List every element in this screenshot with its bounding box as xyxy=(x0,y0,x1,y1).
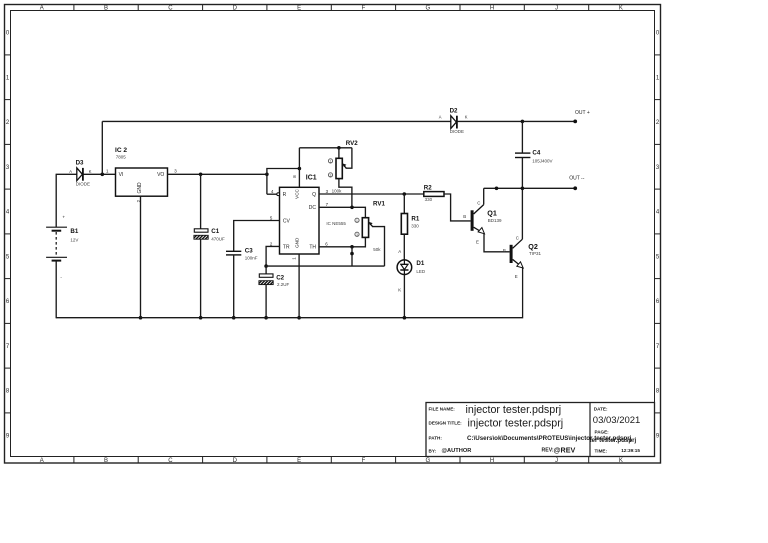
svg-text:+: + xyxy=(62,214,65,219)
svg-text:DIODE: DIODE xyxy=(450,129,464,134)
svg-text:injector tester.pdsprj: injector tester.pdsprj xyxy=(466,404,562,416)
svg-text:IC 2: IC 2 xyxy=(115,147,127,154)
junction IC2 pin2 on ground rail xyxy=(139,316,143,320)
resistor R2 330 xyxy=(424,184,444,201)
junction LED on ground rail xyxy=(403,316,407,320)
junction C4 on OUT+ line xyxy=(521,120,525,124)
svg-text:C: C xyxy=(168,458,173,464)
svg-text:CV: CV xyxy=(283,218,291,224)
svg-text:E: E xyxy=(297,6,301,12)
svg-text:K: K xyxy=(619,6,623,12)
svg-text:F: F xyxy=(362,6,366,12)
regulator IC2 7805 xyxy=(106,147,177,202)
svg-text:7805: 7805 xyxy=(116,155,127,160)
svg-text:R2: R2 xyxy=(424,184,432,191)
svg-text:K: K xyxy=(89,169,92,174)
svg-text:E: E xyxy=(297,458,301,464)
svg-text:@AUTHOR: @AUTHOR xyxy=(442,448,472,454)
svg-text:H: H xyxy=(490,458,494,464)
svg-text:OUT +: OUT + xyxy=(575,110,590,116)
battery B1 xyxy=(46,214,79,279)
svg-text:12V: 12V xyxy=(70,237,78,242)
svg-text:DESIGN TITLE:: DESIGN TITLE: xyxy=(429,421,463,426)
svg-text:12:39:15: 12:39:15 xyxy=(621,448,640,453)
capacitor C2 2.2UF xyxy=(256,274,289,287)
svg-text:C4: C4 xyxy=(532,149,540,156)
svg-text:D: D xyxy=(233,6,238,12)
wire VCC riser to 555 pin 8 xyxy=(298,148,300,188)
svg-text:C3: C3 xyxy=(245,248,253,255)
svg-text:03/03/2021: 03/03/2021 xyxy=(593,415,641,426)
capacitor C3 100nF xyxy=(226,248,258,261)
wire C2 top stub xyxy=(265,266,267,274)
pot RV2 100k xyxy=(299,140,358,207)
wire R2 to Q1 base xyxy=(444,194,471,221)
svg-text:B: B xyxy=(463,214,466,219)
svg-text:50k: 50k xyxy=(373,247,381,252)
svg-text:RV2: RV2 xyxy=(346,140,358,147)
svg-text:H: H xyxy=(490,6,494,12)
svg-text:C: C xyxy=(516,235,519,240)
timer IC1 NE555 xyxy=(270,174,347,259)
svg-text:3: 3 xyxy=(356,233,358,237)
svg-text:B: B xyxy=(104,6,108,12)
svg-text:C1: C1 xyxy=(211,228,219,235)
svg-text:G: G xyxy=(425,458,430,464)
wire Q1 emitter to Q2 base xyxy=(484,234,510,252)
svg-text:F: F xyxy=(362,458,366,464)
svg-text:100nF: 100nF xyxy=(245,256,258,261)
terminal OUT+ xyxy=(573,110,590,123)
svg-text:BY:: BY: xyxy=(429,449,437,454)
svg-text:A: A xyxy=(40,458,44,464)
svg-text:OUT --: OUT -- xyxy=(569,176,585,182)
svg-text:DATE:: DATE: xyxy=(594,407,608,412)
svg-text:B1: B1 xyxy=(70,228,78,235)
OUT- line xyxy=(484,187,575,189)
junction DC node xyxy=(350,206,354,210)
wire C4 bottom to OUT- line xyxy=(521,158,523,189)
wire C3 bottom to ground rail xyxy=(233,255,235,318)
svg-text:IC NE555: IC NE555 xyxy=(326,221,346,226)
pot RV1 50k xyxy=(355,201,386,267)
svg-text:K: K xyxy=(619,458,623,464)
svg-text:A: A xyxy=(40,6,44,12)
wire TR node to RV1 wiper drop xyxy=(266,265,384,267)
LED D1 xyxy=(397,249,426,293)
junction C3 on ground rail xyxy=(232,316,236,320)
wire C1 bottom to ground rail xyxy=(200,239,202,318)
capacitor C4 105J400V xyxy=(515,149,552,163)
svg-text:VO: VO xyxy=(157,172,164,178)
svg-text:K: K xyxy=(465,115,468,120)
wire battery- to ground rail xyxy=(55,261,57,319)
wire xyxy=(56,173,77,175)
junction node D3-IC2-OUT+ feed xyxy=(101,173,105,177)
wire LED cathode to ground rail xyxy=(403,275,405,318)
svg-text:A: A xyxy=(398,249,401,254)
junction stray dot on OUT- line xyxy=(495,187,499,191)
svg-text:470UF: 470UF xyxy=(211,237,225,242)
svg-text:C2: C2 xyxy=(276,275,284,282)
svg-text:DIODE: DIODE xyxy=(76,181,90,186)
svg-text:1: 1 xyxy=(330,159,332,163)
svg-text:105J400V: 105J400V xyxy=(532,158,552,163)
svg-text:D1: D1 xyxy=(416,260,424,267)
svg-text:B: B xyxy=(104,458,108,464)
svg-text:A: A xyxy=(439,115,442,120)
svg-text:330: 330 xyxy=(411,224,419,229)
ground rail xyxy=(56,268,522,318)
svg-text:TR: TR xyxy=(283,245,290,251)
svg-text:PATH:: PATH: xyxy=(429,435,443,440)
svg-text:E: E xyxy=(515,274,518,279)
svg-text:VI: VI xyxy=(119,172,124,178)
svg-text:Q1: Q1 xyxy=(487,209,497,218)
svg-text:TIME:: TIME: xyxy=(595,449,608,454)
transistor Q2 TIP31 xyxy=(503,235,542,279)
wire TH tie down to TR node line xyxy=(351,247,353,266)
svg-text:VCC: VCC xyxy=(295,188,300,198)
svg-text:DC: DC xyxy=(309,205,317,211)
svg-text:G: G xyxy=(425,6,430,12)
title block xyxy=(426,403,655,457)
svg-text:TIP31: TIP31 xyxy=(529,251,542,256)
wire R1 to LED anode xyxy=(403,234,405,260)
svg-text:BD139: BD139 xyxy=(488,218,502,223)
svg-text:LED: LED xyxy=(416,269,426,274)
diode D3 xyxy=(69,160,92,187)
wire 555 Q pin3 to R2 xyxy=(319,193,424,195)
svg-text:E: E xyxy=(476,240,479,245)
wire battery+ to D3 anode xyxy=(55,174,57,227)
wire C4 top stub xyxy=(521,121,523,153)
svg-text:R1: R1 xyxy=(411,216,419,223)
svg-text:2.2UF: 2.2UF xyxy=(277,282,290,287)
wire IC2 pin2 to ground rail xyxy=(140,196,142,318)
svg-text:J: J xyxy=(555,458,558,464)
terminal OUT- xyxy=(569,176,585,191)
wire IC2 VO to 555 supply node xyxy=(168,173,267,175)
wire C1 top xyxy=(200,174,202,229)
wire Q2 collector riser xyxy=(521,188,523,239)
diode D2 xyxy=(439,107,468,134)
svg-text:330: 330 xyxy=(425,197,433,202)
wire up from junction to top rail xyxy=(101,121,103,174)
junction R1 tap on Q line xyxy=(403,192,407,196)
svg-text:R: R xyxy=(283,192,287,198)
svg-text:B: B xyxy=(503,248,506,253)
wire C2 bottom to ground rail xyxy=(265,285,267,318)
svg-text:1: 1 xyxy=(356,219,358,223)
wire top rail to D2 anode xyxy=(102,120,451,122)
junction C2 on ground rail xyxy=(264,316,268,320)
wire node up and to pin8 riser xyxy=(267,169,300,195)
wire Q1 collector to OUT- line xyxy=(483,188,485,204)
svg-text:GND: GND xyxy=(295,237,300,248)
junction VO / pin4 / pin8 node xyxy=(265,173,269,177)
svg-text:D: D xyxy=(233,458,238,464)
svg-text:Q2: Q2 xyxy=(528,242,538,251)
junction 555 GND on ground rail xyxy=(297,316,301,320)
svg-text:D3: D3 xyxy=(76,160,84,167)
svg-text:injector tester.pdsprj: injector tester.pdsprj xyxy=(468,418,564,430)
svg-text:TH: TH xyxy=(309,245,316,251)
svg-text:FILE NAME:: FILE NAME: xyxy=(429,407,456,412)
svg-text:100k: 100k xyxy=(332,189,343,194)
junction C1 tap xyxy=(199,173,203,177)
svg-text:D2: D2 xyxy=(450,107,458,114)
svg-text:PAGE:: PAGE: xyxy=(595,430,610,435)
svg-text:Q: Q xyxy=(312,192,316,198)
svg-text:C: C xyxy=(477,201,480,206)
wire 555 GND pin1 to ground rail xyxy=(298,254,300,318)
svg-text:A: A xyxy=(69,169,72,174)
svg-text:RV1: RV1 xyxy=(373,201,385,208)
capacitor C1 470UF xyxy=(191,228,225,241)
svg-text:K: K xyxy=(398,287,401,292)
junction stray dot on tie xyxy=(350,252,354,256)
junction C2 / TR node xyxy=(264,264,268,268)
wire D3 cathode to IC2 VI xyxy=(84,173,116,175)
svg-text:@REV: @REV xyxy=(554,445,576,454)
svg-text:IC1: IC1 xyxy=(306,174,317,181)
svg-text:C: C xyxy=(168,6,173,12)
resistor R1 330 xyxy=(401,194,420,234)
svg-text:ter tester.pdsprj: ter tester.pdsprj xyxy=(590,437,637,444)
svg-text:J: J xyxy=(555,6,558,12)
wire to reset pin bubble xyxy=(267,193,277,195)
junction C1 on ground rail xyxy=(199,316,203,320)
wire D2 cathode to OUT+ terminal xyxy=(458,120,575,122)
svg-text:3: 3 xyxy=(330,173,332,177)
transistor Q1 BD139 xyxy=(463,201,502,245)
wire TR pin2 down to C2 node xyxy=(266,246,279,266)
svg-text:REV:: REV: xyxy=(542,448,554,454)
wire 555 DC pin7 to RV1 top xyxy=(319,207,365,217)
wire 555 TH pin6 to RV1 bottom xyxy=(319,237,365,246)
junction pin8 riser xyxy=(298,167,302,171)
svg-text:GND: GND xyxy=(137,182,143,194)
junction TH node xyxy=(350,245,354,249)
wire CV pin5 to C3 xyxy=(234,221,280,252)
junction C4 Q2 on OUT- line xyxy=(521,187,525,191)
